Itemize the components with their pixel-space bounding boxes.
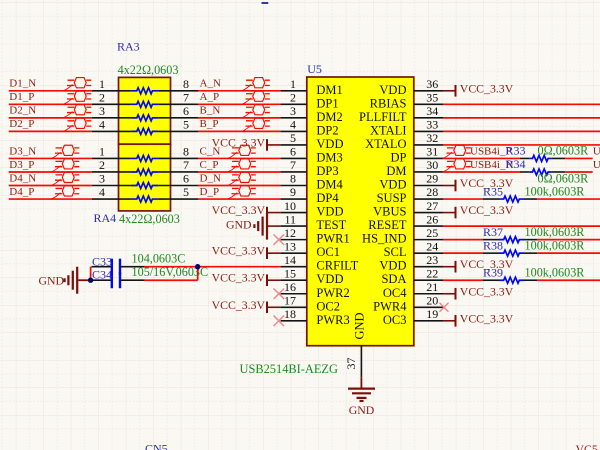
U5 pin 1 (281, 77, 307, 91)
wire B_P (198, 130, 281, 132)
svg-text:C33: C33 (92, 254, 112, 268)
net label USB4i_P (470, 146, 512, 158)
svg-text:A_P: A_P (200, 91, 220, 103)
net label D_P (200, 186, 220, 198)
differential pair marker D3_P (51, 159, 79, 172)
RA4 pin 2 (92, 158, 131, 172)
U5 pin 32 (414, 131, 443, 145)
power port VCC_3.3V (U5 pin 15) (212, 271, 281, 286)
svg-text:VDD: VDD (379, 83, 406, 97)
U5 pin name DM1 (316, 83, 342, 97)
svg-text:5: 5 (183, 185, 189, 199)
net label C_P (200, 159, 219, 171)
U5 pin name DP2 (316, 123, 338, 137)
svg-text:27: 27 (426, 199, 438, 213)
differential pair marker USB4i_N (443, 159, 471, 172)
svg-text:VCC_3.3V: VCC_3.3V (460, 284, 514, 298)
net label VC5 (clipped) (576, 442, 598, 450)
U5 pin name XTALO (365, 137, 406, 151)
wire U5 pin 30 to R34 (443, 171, 520, 173)
net label A_P (200, 91, 220, 103)
net label D3_N (9, 145, 36, 157)
svg-text:9: 9 (290, 185, 296, 199)
wire C34 to node (145, 279, 198, 281)
svg-text:VCC_3.3V: VCC_3.3V (212, 135, 266, 149)
differential pair marker D_P (228, 186, 256, 199)
U5 pin 27 (414, 199, 443, 213)
svg-text:D3_P: D3_P (9, 159, 34, 171)
svg-text:R38: R38 (483, 239, 503, 253)
svg-text:D3_N: D3_N (9, 145, 36, 157)
wire C33 to node (145, 266, 198, 268)
svg-text:7: 7 (290, 158, 296, 172)
resistor array RA4 body (119, 144, 171, 211)
svg-text:GND: GND (349, 403, 375, 417)
svg-text:14: 14 (284, 253, 296, 267)
no-connect X (U5 pin 16) (274, 288, 285, 299)
value 100k,0603R (R35) (525, 185, 586, 199)
differential pair marker D3_N (51, 145, 79, 158)
svg-text:RA3: RA3 (117, 40, 140, 54)
svg-text:20: 20 (426, 293, 438, 307)
U5 pin 10 (281, 199, 307, 213)
differential pair marker D_N (228, 172, 256, 185)
designator R37 (483, 225, 503, 239)
wire D1_P (9, 103, 92, 105)
svg-text:R35: R35 (483, 185, 503, 199)
no-connect X (U5 pin 12) (274, 234, 285, 245)
U5 pin name VDD (316, 205, 343, 219)
designator C34 (92, 267, 112, 281)
RA4 pin 5 (159, 185, 198, 199)
svg-text:DM3: DM3 (316, 150, 342, 164)
wire from U5 pin 26 (443, 225, 600, 227)
svg-text:DP: DP (391, 150, 407, 164)
designator C33 (92, 254, 112, 268)
svg-text:23: 23 (426, 253, 438, 267)
svg-text:32: 32 (426, 131, 438, 145)
U5 pin 15 (281, 266, 307, 280)
svg-text:TEST: TEST (316, 218, 346, 232)
value 100k,0603R (R39) (525, 266, 586, 280)
svg-text:VCC_3.3V: VCC_3.3V (460, 257, 514, 271)
U5 pin name PLLFILT (359, 110, 407, 124)
resistor array RA3 body (119, 77, 171, 144)
svg-text:VCC_3.3V: VCC_3.3V (212, 298, 266, 312)
svg-text:22: 22 (426, 266, 438, 280)
net label D1_N (9, 78, 36, 90)
svg-text:1: 1 (99, 77, 105, 91)
U5 pin 30 (414, 158, 443, 172)
junction at C34/GND node (88, 278, 93, 283)
U5 pin 13 (281, 239, 307, 253)
svg-text:B_N: B_N (200, 105, 221, 117)
svg-text:19: 19 (426, 307, 438, 321)
svg-text:D1_N: D1_N (9, 78, 36, 90)
power port VCC_3.3V (U5 pin 10) (212, 203, 281, 218)
wire D3_P (9, 171, 92, 173)
resistor R35 (483, 196, 537, 202)
wire R39 out (537, 279, 600, 281)
RA3 pin 5 (159, 118, 198, 132)
U5 pin name PWR2 (316, 286, 349, 300)
ground GND (pin 37) (348, 389, 375, 417)
svg-text:SDA: SDA (381, 272, 406, 286)
svg-text:35: 35 (426, 91, 438, 105)
net label B_N (200, 105, 221, 117)
clipped blue mark top centre (262, 2, 269, 4)
U5 pin 14 (281, 253, 307, 267)
RA3 pin 6 (159, 104, 198, 118)
U5 pin name DM2 (316, 110, 342, 124)
svg-text:VCC_3.3V: VCC_3.3V (212, 203, 266, 217)
svg-text:DM: DM (386, 164, 406, 178)
svg-text:29: 29 (426, 172, 438, 186)
svg-text:VDD: VDD (379, 178, 406, 192)
U5 pin name DP1 (316, 96, 338, 110)
no-connect X (U5 pin 20) (440, 303, 449, 312)
U5 pin name DM4 (316, 178, 343, 192)
svg-text:GND: GND (353, 312, 367, 339)
U5 pin name HS_IND (362, 232, 406, 246)
differential pair marker D1_N (63, 78, 91, 91)
svg-text:U5: U5 (307, 62, 322, 76)
svg-text:OC3: OC3 (383, 313, 407, 327)
svg-text:VCC_3.3V: VCC_3.3V (460, 311, 514, 325)
wire D4_N (9, 185, 92, 187)
differential pair marker D2_N (63, 105, 91, 118)
value 4x22&#937;,0603 (RA4) (119, 212, 180, 226)
svg-text:PLLFILT: PLLFILT (359, 110, 407, 124)
net label D_N (200, 172, 221, 184)
svg-text:8: 8 (290, 172, 296, 186)
svg-text:RA4: RA4 (94, 211, 117, 225)
svg-text:7: 7 (183, 158, 189, 172)
svg-text:PWR1: PWR1 (316, 232, 349, 246)
resistor R33 (520, 155, 565, 161)
U5 pin 34 (414, 104, 443, 118)
U5 pin name RESET (368, 218, 407, 232)
designator R38 (483, 239, 503, 253)
svg-text:DP4: DP4 (316, 191, 339, 205)
differential pair marker B_N (242, 105, 270, 118)
U5 pin 25 (414, 226, 443, 240)
net label D4_P (9, 186, 34, 198)
svg-text:RBIAS: RBIAS (370, 96, 407, 110)
ground GND (C33/C34) (38, 267, 89, 294)
svg-text:4: 4 (99, 185, 105, 199)
U5 pin name CRFILT (316, 259, 358, 273)
svg-text:D_N: D_N (200, 172, 221, 184)
resistor element RA4-3 (131, 183, 159, 189)
U5 pin 33 (414, 118, 443, 132)
U5 pin name DM (386, 164, 406, 178)
value 100k,0603R (R38) (525, 239, 586, 253)
value 105/16V,0603C (132, 265, 209, 279)
svg-text:R33: R33 (506, 144, 526, 158)
U5 pin name VDD (316, 137, 343, 151)
svg-text:D2_P: D2_P (9, 118, 34, 130)
svg-text:100k,0603R: 100k,0603R (525, 239, 586, 253)
U5 pin name TEST (316, 218, 346, 232)
net label USB4 (clipped) (593, 146, 600, 158)
svg-text:4: 4 (99, 118, 105, 132)
svg-text:3: 3 (99, 172, 105, 186)
svg-text:DP1: DP1 (316, 96, 338, 110)
wire R38 out (537, 252, 600, 254)
op-amp U1 substitute: IC U5 body (307, 77, 414, 346)
svg-text:USB4: USB4 (593, 159, 600, 171)
wire U5 pin 22 to R39 (443, 279, 483, 281)
svg-text:100k,0603R: 100k,0603R (525, 225, 586, 239)
U5 pin name OC2 (316, 299, 340, 313)
svg-text:VBUS: VBUS (373, 205, 406, 219)
svg-text:USB2514BI-AEZG: USB2514BI-AEZG (240, 362, 338, 376)
power port VCC_3.3V (U5 pin 29) (443, 176, 514, 191)
resistor R37 (483, 237, 537, 243)
value 104,0603C (132, 252, 186, 266)
wire D_P (198, 198, 281, 200)
svg-text:6: 6 (290, 145, 296, 159)
resistor element RA4-1 (131, 155, 159, 161)
wire D4_P (9, 198, 92, 200)
svg-text:VC5: VC5 (576, 442, 598, 450)
svg-text:36: 36 (426, 77, 438, 91)
svg-text:SUSP: SUSP (377, 191, 407, 205)
net label C_N (200, 145, 221, 157)
value 100k,0603R (R37) (525, 225, 586, 239)
svg-text:13: 13 (284, 239, 296, 253)
U5 pin name SDA (381, 272, 406, 286)
RA4 pin 3 (92, 172, 131, 186)
svg-text:VDD: VDD (316, 272, 343, 286)
U5 pin name DM3 (316, 150, 342, 164)
svg-text:4x22Ω,0603: 4x22Ω,0603 (119, 212, 180, 226)
value 4x22&#937;,0603 (RA3) (118, 63, 179, 77)
svg-text:R34: R34 (506, 157, 526, 171)
differential pair marker A_P (242, 91, 270, 104)
power port VCC_3.3V (U5 pin 36) (443, 81, 514, 96)
RA3 pin 1 (92, 77, 131, 91)
svg-text:RESET: RESET (368, 218, 407, 232)
power port VCC_3.3V (U5 pin 23) (443, 257, 514, 272)
wire U5 pin 24 to R38 (443, 252, 483, 254)
wire to U5 pin 14 (198, 266, 281, 268)
svg-text:C_P: C_P (200, 159, 219, 171)
svg-text:17: 17 (284, 293, 296, 307)
svg-text:B_P: B_P (200, 118, 219, 130)
svg-text:D4_N: D4_N (9, 172, 36, 184)
value 0&#937;,0603R (R33) (538, 144, 590, 158)
svg-text:1: 1 (99, 145, 105, 159)
wire from U5 pin 34 (443, 117, 600, 119)
svg-text:24: 24 (426, 239, 438, 253)
net label D2_N (9, 105, 36, 117)
svg-text:VCC_3.3V: VCC_3.3V (460, 81, 514, 95)
RA3 pin 2 (92, 91, 131, 105)
svg-text:GND: GND (38, 273, 64, 287)
U5 pin name XTALI (370, 123, 407, 137)
designator CN5 (clipped at bottom) (145, 442, 168, 450)
U5 pin 37 (344, 346, 361, 378)
svg-text:15: 15 (284, 266, 296, 280)
designator R39 (483, 266, 503, 280)
svg-text:VCC_3.3V: VCC_3.3V (460, 203, 514, 217)
net label D4_N (9, 172, 36, 184)
svg-text:3: 3 (99, 104, 105, 118)
svg-text:21: 21 (426, 280, 438, 294)
svg-text:26: 26 (426, 212, 438, 226)
svg-text:28: 28 (426, 185, 438, 199)
U5 pin name OC4 (383, 286, 407, 300)
capacitor C33 (92, 259, 145, 275)
wire D2_P (9, 130, 92, 132)
svg-text:HS_IND: HS_IND (362, 232, 406, 246)
wire D2_N (9, 117, 92, 119)
svg-text:10: 10 (284, 199, 296, 213)
svg-text:12: 12 (284, 226, 296, 240)
RA3 pin 8 (159, 77, 198, 91)
svg-text:D_P: D_P (200, 186, 220, 198)
svg-text:OC2: OC2 (316, 299, 340, 313)
U5 pin name SUSP (377, 191, 407, 205)
svg-text:VDD: VDD (316, 205, 343, 219)
value 0&#937;,0603R (R34) (538, 171, 590, 185)
resistor element RA3-1 (131, 88, 159, 94)
svg-text:A_N: A_N (200, 78, 221, 90)
U5 pin 17 (281, 293, 307, 307)
svg-text:XTALO: XTALO (365, 137, 406, 151)
U5 pin 24 (414, 239, 443, 253)
U5 pin 36 (414, 77, 443, 91)
resistor R39 (483, 277, 537, 283)
svg-text:PWR3: PWR3 (316, 313, 349, 327)
svg-text:25: 25 (426, 226, 438, 240)
svg-text:104,0603C: 104,0603C (132, 252, 186, 266)
U5 pin name DP4 (316, 191, 339, 205)
U5 pin name VDD (316, 272, 343, 286)
svg-text:DM1: DM1 (316, 83, 342, 97)
svg-text:1: 1 (290, 77, 296, 91)
svg-text:VDD: VDD (379, 259, 406, 273)
differential pair marker A_N (242, 78, 270, 91)
resistor R34 (520, 169, 565, 175)
designator R34 (506, 157, 526, 171)
svg-text:34: 34 (426, 104, 438, 118)
svg-text:37: 37 (344, 358, 358, 370)
wire from U5 pin 35 (443, 103, 600, 105)
svg-text:7: 7 (183, 91, 189, 105)
svg-text:VDD: VDD (316, 137, 343, 151)
net label B_P (200, 118, 219, 130)
svg-text:CRFILT: CRFILT (316, 259, 358, 273)
svg-text:VCC_3.3V: VCC_3.3V (212, 271, 266, 285)
svg-text:6: 6 (183, 104, 189, 118)
svg-text:D2_N: D2_N (9, 105, 36, 117)
wire R35 out (537, 198, 600, 200)
svg-text:100k,0603R: 100k,0603R (525, 185, 586, 199)
net label D1_P (9, 91, 34, 103)
U5 pin name OC3 (383, 313, 407, 327)
svg-text:PWR4: PWR4 (373, 299, 407, 313)
U5 pin 18 (281, 307, 307, 321)
power port VCC_3.3V (U5 pin 13) (212, 244, 281, 259)
svg-text:5: 5 (290, 131, 296, 145)
wire C_N (198, 157, 281, 159)
U5 pin name VDD (379, 83, 406, 97)
U5 pin 3 (281, 104, 307, 118)
svg-text:D4_P: D4_P (9, 186, 34, 198)
wire R34 out (565, 171, 592, 173)
U5 pin 16 (281, 280, 307, 294)
differential pair marker D1_P (63, 91, 91, 104)
wire R33 out (565, 157, 592, 159)
differential pair marker USB4i_P (443, 145, 471, 158)
U5 pin 23 (414, 253, 443, 267)
designator RA4 (94, 211, 117, 225)
wire C_P (198, 171, 281, 173)
differential pair marker C_P (228, 159, 256, 172)
U5 pin 11 (281, 212, 307, 226)
value USB2514BI-AEZG (240, 362, 338, 376)
U5 pin 20 (414, 293, 443, 307)
U5 pin name DP3 (316, 164, 338, 178)
U5 pin name PWR3 (316, 313, 349, 327)
wire D3_N (9, 157, 92, 159)
svg-text:2: 2 (290, 91, 296, 105)
U5 pin 29 (414, 172, 443, 186)
resistor element RA4-4 (131, 196, 159, 202)
svg-text:GND: GND (226, 217, 252, 231)
wire pin 37 to ground (360, 377, 362, 388)
svg-text:OC4: OC4 (383, 286, 407, 300)
net label D3_P (9, 159, 34, 171)
U5 pin name DP (391, 150, 407, 164)
svg-text:2: 2 (99, 158, 105, 172)
ground GND (U5 pin 11) (226, 213, 281, 240)
U5 pin 9 (281, 185, 307, 199)
svg-text:4x22Ω,0603: 4x22Ω,0603 (118, 63, 179, 77)
svg-text:DM2: DM2 (316, 110, 342, 124)
wire A_N (198, 90, 281, 92)
RA4 pin 1 (92, 145, 131, 159)
RA4 pin 7 (159, 158, 198, 172)
power port VCC_3.3V (U5 pin 17) (212, 298, 281, 313)
U5 pin name SCL (384, 245, 407, 259)
svg-text:30: 30 (426, 158, 438, 172)
wire node vertical (197, 267, 199, 281)
svg-text:XTALI: XTALI (370, 123, 407, 137)
designator U5 (307, 62, 322, 76)
U5 pin 31 (414, 145, 443, 159)
svg-text:PWR2: PWR2 (316, 286, 349, 300)
svg-text:0Ω,0603R: 0Ω,0603R (538, 171, 590, 185)
svg-text:5: 5 (183, 118, 189, 132)
RA4 pin 8 (159, 145, 198, 159)
svg-text:16: 16 (284, 280, 296, 294)
U5 pin 8 (281, 172, 307, 186)
net label D2_P (9, 118, 34, 130)
net label USB4 (clipped) (593, 159, 600, 171)
wire from U5 pin 33 (443, 130, 600, 132)
power port VCC_3.3V (U5 pin 5) (212, 135, 281, 150)
net label A_N (200, 78, 221, 90)
resistor element RA3-4 (131, 128, 159, 134)
no-connect X (U5 pin 18) (274, 316, 285, 327)
wire gnd-to-caps vertical (90, 267, 92, 281)
wire R37 out (537, 239, 600, 241)
U5 pin 28 (414, 185, 443, 199)
